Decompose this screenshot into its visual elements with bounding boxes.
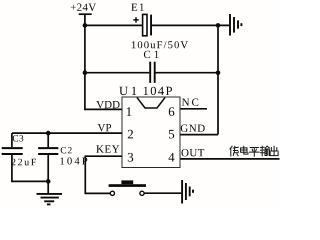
wire button to right ground [144, 192, 181, 194]
char 电 [241, 146, 248, 154]
ground top-right [230, 14, 241, 36]
capacitor C3 plates [2, 148, 23, 154]
wire C1 row [85, 72, 149, 74]
pin name KEY [96, 145, 119, 152]
label E1 [131, 4, 144, 11]
wire VP pin2 [12, 132, 122, 134]
pin name OUT [182, 149, 205, 156]
char 出 [270, 146, 278, 155]
char 平 [250, 148, 260, 157]
capacitor E1 plates [133, 14, 152, 35]
ground bottom-right [182, 180, 193, 204]
pin name NC [182, 99, 198, 106]
pin name GND [181, 125, 205, 132]
label 22uF [11, 159, 36, 166]
pin number 1 [127, 107, 132, 116]
label 104P (C2 value) [60, 157, 87, 164]
wire KEY pin3 [85, 156, 122, 193]
pin number 4 [169, 153, 175, 162]
label 低电平输出 (low level output), drawn strokes [230, 146, 278, 156]
label 104P (C1 value) [144, 87, 172, 95]
capacitor C1 plates [150, 62, 155, 83]
wire OUT pin4 [180, 158, 280, 160]
char 输 [260, 146, 269, 156]
label U1 [119, 87, 136, 95]
wire E1 to right rail and top ground [152, 24, 230, 26]
power +24V T-bar [79, 13, 92, 15]
pushbutton S1 [109, 180, 146, 195]
pin number 5 [169, 130, 174, 139]
label C2 [61, 147, 72, 153]
pin name VP [98, 124, 112, 131]
wire NC stub pin6 [180, 108, 207, 110]
wire C2 leads [47, 133, 49, 147]
label C3 [13, 135, 24, 141]
pin number 3 [128, 153, 133, 162]
wire right rail [217, 25, 219, 134]
IC U1 body [122, 97, 180, 168]
wire top rail to E1 [85, 24, 143, 26]
capacitor C2 plates [38, 148, 58, 154]
ground bottom-left [37, 194, 63, 205]
label 100uF/50V [132, 41, 188, 48]
label +24V [71, 4, 96, 12]
label C1 [144, 51, 159, 58]
pin number 6 [169, 107, 175, 116]
wire VDD pin1 [85, 108, 122, 110]
wire GND pin5 [180, 134, 218, 136]
pin name VDD [96, 101, 119, 108]
wire left rail [84, 14, 86, 110]
pin number 2 [128, 130, 133, 139]
char 低 [230, 146, 238, 156]
wire C3 leads [11, 133, 13, 147]
IC U1 notch [137, 98, 165, 108]
